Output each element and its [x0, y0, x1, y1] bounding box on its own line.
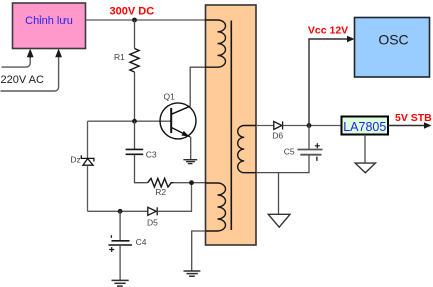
OSC block [355, 18, 430, 78]
wire Q1 emitter to ground [190, 137, 192, 160]
capacitor C4 [119, 211, 121, 240]
capacitor C3 [134, 121, 136, 149]
svg-text:Chỉnh lưu: Chỉnh lưu [25, 15, 73, 27]
primary winding [205, 20, 226, 67]
transformer core [230, 21, 232, 231]
junction R2/winding/D5 [189, 180, 194, 185]
svg-text:D6: D6 [272, 131, 283, 141]
wire 220V AC line 2 [1, 56, 59, 91]
wire R1 top lead [134, 20, 136, 49]
svg-text:C3: C3 [146, 149, 157, 159]
wire secondary top to D6 [256, 125, 274, 127]
ground below C4 [112, 280, 129, 286]
junction Vcc/C5 [307, 123, 312, 128]
wire regulator ground [364, 135, 366, 164]
arrow 5V STB [424, 122, 432, 128]
diode D6 [274, 121, 283, 129]
wire D5 row left [88, 210, 148, 212]
rectifier block Chinh luu [13, 3, 86, 49]
wire secondary return to ground [278, 173, 280, 215]
feedback winding [205, 183, 226, 231]
wire feedback winding bottom to ground [192, 231, 206, 271]
resistor R1 [130, 49, 139, 73]
capacitor C5 [308, 126, 310, 150]
wire 5V STB output [388, 125, 424, 127]
svg-text:Q1: Q1 [164, 92, 176, 102]
wire down to Dz [87, 121, 89, 158]
wire C5 bottom / secondary return [256, 155, 309, 173]
arrow into rectifier 1 [27, 49, 34, 58]
svg-text:R2: R2 [155, 187, 166, 197]
svg-text:C4: C4 [136, 237, 147, 247]
ground triangle at secondary return [268, 214, 290, 227]
svg-text:LA7805: LA7805 [343, 120, 386, 134]
ground triangle at regulator [355, 163, 375, 173]
junction base/C3 [132, 119, 137, 124]
regulator LA7805 [342, 117, 389, 135]
junction D5 row / C4 [118, 209, 123, 214]
svg-text:300V DC: 300V DC [110, 6, 155, 18]
svg-text:Dz: Dz [70, 155, 80, 165]
ground at Q1 emitter [183, 160, 197, 164]
svg-text:220V AC: 220V AC [1, 74, 44, 86]
wire R2 to feedback winding [174, 182, 206, 184]
wire R1 bottom lead to base node [134, 72, 136, 121]
wire Q1 collector up to primary winding [190, 67, 205, 106]
svg-text:OSC: OSC [378, 32, 408, 48]
wire C4 to ground [119, 245, 121, 280]
ground below feedback winding [184, 271, 201, 276]
wire D6 cathode to regulator [283, 125, 342, 127]
wire base rail [88, 120, 172, 122]
wire Dz anode down [87, 165, 89, 211]
svg-text:5V STB: 5V STB [395, 112, 432, 124]
wire 220V AC line 1 [2, 56, 31, 67]
arrow into rectifier 2 [55, 49, 62, 58]
svg-text:R1: R1 [114, 52, 125, 62]
transformer T1 body [206, 5, 257, 245]
resistor R2 [148, 178, 174, 187]
secondary winding [238, 126, 256, 173]
arrow into OSC [347, 36, 355, 42]
diode D5 [148, 207, 157, 215]
wire Vcc branch [309, 39, 347, 126]
zener diode Dz [81, 155, 94, 165]
svg-text:C5: C5 [284, 147, 295, 157]
wire D5 cathode to riser [157, 183, 191, 212]
svg-text:D5: D5 [147, 218, 158, 228]
wire 300V DC bus [86, 19, 206, 21]
junction 300V/R1 [132, 18, 137, 23]
svg-text:Vcc 12V: Vcc 12V [308, 24, 348, 36]
wire C3 bottom to R2 [135, 155, 148, 183]
